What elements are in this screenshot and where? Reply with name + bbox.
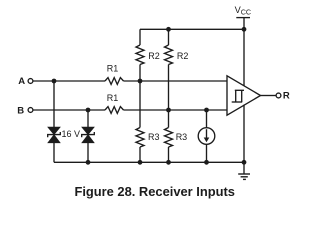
node current source-rail junction dot — [204, 160, 209, 165]
wire right zener to ground rail — [87, 143, 89, 163]
wire current source top lead — [206, 110, 208, 128]
wire comparator ground lead — [243, 105, 245, 174]
node B terminal circle — [28, 108, 33, 113]
svg-text:R1: R1 — [107, 93, 119, 103]
ground — [238, 174, 250, 179]
wire R1 to comparator A input — [124, 80, 228, 82]
wire B input to R1 — [33, 109, 105, 111]
zener diode pair D2 (right) — [82, 127, 95, 142]
wire A input to R1 — [33, 80, 105, 82]
wire A junction down through left zener branch — [53, 81, 55, 127]
zener diode pair D1 (16 V, left) — [48, 127, 61, 142]
node R3b-rail junction dot — [166, 160, 171, 165]
node A-line junction dot — [138, 79, 143, 84]
wire R3a bottom to ground rail — [139, 147, 141, 162]
svg-text:Figure 28. Receiver Inputs: Figure 28. Receiver Inputs — [74, 184, 234, 199]
svg-text:R1: R1 — [107, 64, 119, 74]
wire ground rail — [54, 161, 244, 163]
node A-line / zener branch junction dot — [52, 79, 57, 84]
node A terminal circle — [28, 79, 33, 84]
wire R2a bottom to A line — [139, 65, 141, 82]
wire R3b bottom to ground rail — [168, 147, 170, 162]
svg-text:R3: R3 — [176, 132, 188, 142]
node A terminal label — [18, 76, 25, 87]
svg-text:16 V: 16 V — [62, 129, 81, 139]
resistor R1 (bottom, on B line) — [105, 107, 124, 114]
wire left zener to ground rail — [53, 143, 55, 163]
wire current source bottom lead — [206, 144, 208, 162]
wire comparator output — [261, 95, 277, 97]
svg-text:A: A — [18, 76, 25, 87]
node B-line / zener junction dot — [86, 108, 91, 113]
svg-text:B: B — [17, 105, 24, 116]
wire B junction down to R3b — [168, 110, 170, 128]
svg-text:R3: R3 — [148, 132, 160, 142]
resistor R3 (left) — [136, 128, 144, 148]
node B terminal label — [17, 105, 24, 116]
node top rail / R2b junction dot — [166, 27, 171, 32]
resistor R2 (right) — [165, 45, 173, 65]
node right zener-rail junction dot — [86, 160, 91, 165]
resistor R3 (right) — [165, 128, 173, 148]
svg-text:VCC: VCC — [235, 5, 252, 17]
VCC power bar — [236, 17, 250, 19]
node R output label — [283, 90, 290, 101]
current source I1 — [198, 128, 215, 145]
svg-text:R: R — [283, 90, 290, 101]
op-amp U1 comparator triangle — [227, 76, 261, 115]
wire right column top (rail to R2b) — [168, 29, 170, 45]
wire R1 to comparator B input — [124, 109, 228, 111]
node ground rail junction dot — [242, 160, 247, 165]
node R3a-rail junction dot — [138, 160, 143, 165]
VCC label — [235, 5, 252, 17]
resistor R2 (left) — [136, 45, 144, 65]
node B-line / current source junction dot — [204, 108, 209, 113]
wire R2b bottom to B line — [168, 65, 170, 111]
wire VCC vertical down to comparator top edge — [243, 18, 245, 86]
resistor R1 (top, on A line) — [105, 78, 124, 85]
node VCC-toprail junction dot — [242, 27, 247, 32]
label 16 V — [62, 129, 81, 139]
wire left column top (rail to R2a) — [139, 29, 141, 45]
hysteresis symbol — [232, 90, 244, 102]
node R output terminal circle — [276, 93, 281, 98]
svg-text:R2: R2 — [148, 51, 160, 61]
wire top rail — [140, 28, 244, 30]
wire A junction down to R3a — [139, 81, 141, 128]
svg-text:R2: R2 — [177, 51, 189, 61]
node B-line / R2 junction dot — [166, 108, 171, 113]
wire B junction down through right zener branch — [87, 110, 89, 127]
